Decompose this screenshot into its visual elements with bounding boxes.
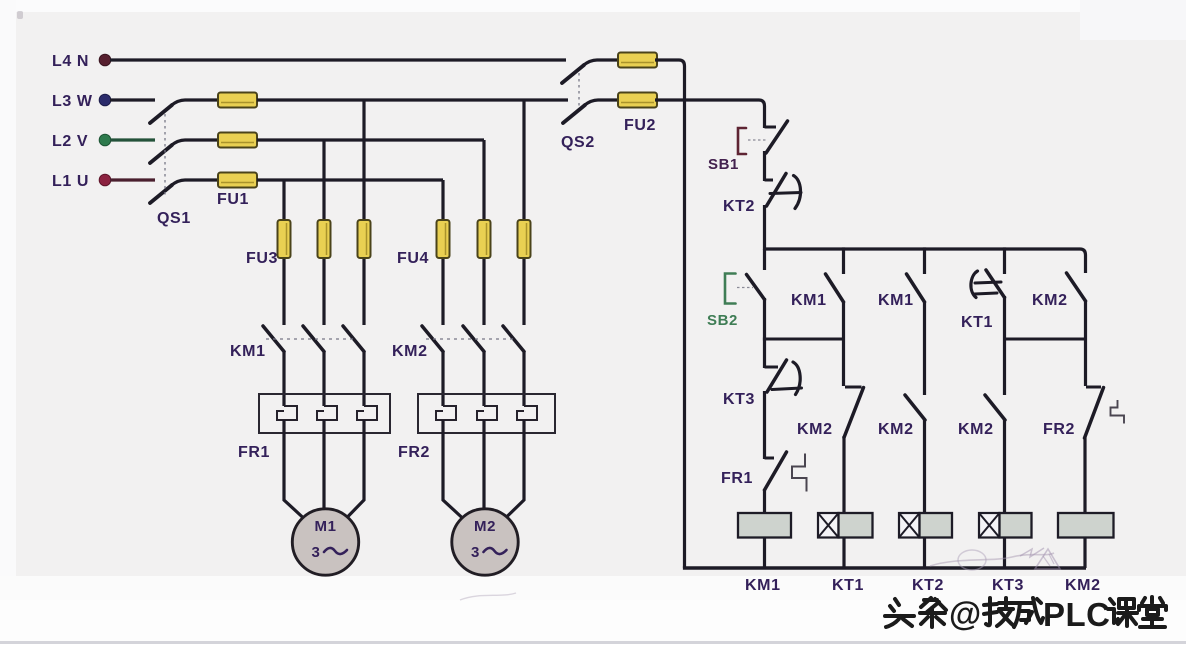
wire branch2 mid	[842, 301, 845, 386]
svg-text:KM2: KM2	[1032, 292, 1068, 309]
contact KM1 auxiliary branch3	[878, 274, 925, 309]
wire L1 U after FU1	[257, 178, 443, 181]
svg-text:KT1: KT1	[832, 577, 864, 594]
wire M1 lead 1	[284, 420, 304, 519]
wire branch3 mid	[923, 301, 926, 395]
wire L1 U	[110, 178, 155, 181]
wire branch4 to coil	[1003, 419, 1006, 514]
svg-text:SB1: SB1	[708, 156, 739, 173]
svg-text:L1 U: L1 U	[52, 173, 89, 190]
terminal dot L2 V	[99, 134, 111, 146]
svg-text:L4 N: L4 N	[52, 53, 89, 70]
wire branch1 FR1 to coil	[763, 489, 766, 514]
svg-text:KM1: KM1	[745, 577, 781, 594]
wire branch5 coil to bus	[1083, 537, 1086, 568]
wire M1 lead 2	[322, 420, 325, 512]
svg-text:FU1: FU1	[217, 191, 249, 208]
wire branch5 to coil	[1083, 437, 1086, 514]
wire branch1 SB2-KT3	[763, 298, 766, 368]
svg-text:SB2: SB2	[707, 312, 738, 329]
node L3 W label	[52, 93, 93, 110]
wire link SB2/KM1 holding	[763, 337, 844, 340]
coil KT3	[979, 513, 1032, 594]
thermal relay FR1	[238, 394, 390, 461]
svg-text:KM1: KM1	[791, 292, 827, 309]
wire branch4 coil to bus	[1003, 537, 1006, 568]
wire FU4 column 3	[522, 100, 525, 325]
fuse FU4	[397, 220, 531, 267]
switch QS1	[150, 100, 218, 227]
wire KM2 pole 1 to FR2	[441, 351, 444, 406]
wire branch3 to coil	[923, 419, 926, 514]
fuse FU1	[215, 93, 260, 209]
wire branch2 top	[842, 247, 845, 274]
wire M2 lead 1	[443, 420, 463, 519]
svg-text:KM2: KM2	[797, 421, 833, 438]
svg-text:KM2: KM2	[392, 343, 428, 360]
wire KM1 pole 1 to FR1	[282, 351, 285, 406]
svg-text:KT3: KT3	[723, 391, 755, 408]
time-delay contact KT2	[723, 174, 801, 216]
wire branch3 coil to bus	[923, 537, 926, 568]
wire L3 W after FU1	[257, 98, 568, 101]
wire branch5 mid	[1084, 300, 1087, 386]
svg-text:@: @	[949, 595, 981, 632]
svg-text:FR2: FR2	[1043, 421, 1075, 438]
wire branch4 mid	[1003, 296, 1006, 395]
wire KM1 pole 3 to FR1	[362, 351, 365, 406]
svg-text:KT1: KT1	[961, 314, 993, 331]
svg-text:FR2: FR2	[398, 444, 430, 461]
thermal relay FR2	[398, 394, 555, 461]
svg-text:L2 V: L2 V	[52, 133, 88, 150]
coil KM2	[1058, 513, 1114, 594]
watermark text 头条 @技成PLC课堂	[885, 595, 1166, 633]
switch QS2	[561, 60, 619, 151]
motor M2	[452, 509, 518, 575]
svg-text:QS1: QS1	[157, 210, 191, 227]
node L2 V label	[52, 133, 88, 150]
fuse FU2	[615, 53, 660, 135]
wire KM2 pole 3 to FR2	[522, 351, 525, 406]
wire branch2 coil to bus	[842, 537, 845, 568]
wire branch1 SB1-KT2	[763, 151, 766, 181]
terminal dot L3 W	[99, 94, 111, 106]
wire M2 lead 2	[482, 420, 485, 512]
wire L4 N	[110, 58, 566, 61]
svg-text:L3 W: L3 W	[52, 93, 93, 110]
svg-text:FR1: FR1	[238, 444, 270, 461]
terminal dot L1 U	[99, 174, 111, 186]
node L1 U label	[52, 173, 89, 190]
svg-text:3: 3	[471, 544, 480, 561]
contact KM2 auxiliary branch5	[1032, 273, 1086, 309]
coil KT1	[818, 513, 873, 594]
contact KM2 NC branch2	[797, 387, 864, 438]
wire branch1 KT3-FR1	[763, 391, 766, 459]
wire branch1 coil to bus	[763, 537, 766, 568]
terminal dot L4 N	[99, 54, 111, 66]
svg-text:KT2: KT2	[912, 577, 944, 594]
stop button SB1	[708, 121, 788, 173]
thermal contact FR1	[721, 452, 807, 492]
svg-text:FU3: FU3	[246, 250, 278, 267]
contactor KM2 main contacts	[392, 326, 524, 360]
wire control top bus	[765, 249, 1086, 273]
wire KM1 pole 2 to FR1	[322, 351, 325, 406]
svg-text:KM1: KM1	[230, 343, 266, 360]
wire L3 W	[110, 98, 155, 101]
wire FU4 column 1	[441, 180, 444, 325]
svg-text:M1: M1	[314, 518, 336, 535]
wire branch3 top	[923, 247, 926, 274]
contact KM1 auxiliary branch2	[791, 274, 844, 309]
wire control left rail	[655, 60, 685, 568]
wire KM2 pole 2 to FR2	[482, 351, 485, 406]
wire M2 lead 3	[505, 420, 524, 519]
svg-text:KM1: KM1	[878, 292, 914, 309]
fuse FU3	[246, 220, 371, 267]
svg-text:KM2: KM2	[878, 421, 914, 438]
svg-text:KT2: KT2	[723, 198, 755, 215]
contactor KM1 main contacts	[230, 326, 364, 360]
wire FU3 column 1	[282, 180, 285, 325]
svg-text:FU2: FU2	[624, 117, 656, 134]
svg-text:KT3: KT3	[992, 577, 1024, 594]
wire L2 V after FU1	[257, 138, 484, 141]
svg-text:KM2: KM2	[958, 421, 994, 438]
coil KM1	[738, 513, 791, 594]
svg-text:KM2: KM2	[1065, 577, 1101, 594]
wire branch2 to coil	[842, 436, 845, 514]
svg-text:FU4: FU4	[397, 250, 429, 267]
node L4 N label	[52, 53, 89, 70]
wire FU3 column 3	[362, 100, 365, 325]
thermal contact FR2	[1043, 387, 1124, 438]
contact KM2 auxiliary branch4	[958, 395, 1005, 438]
time-delay contact KT3	[723, 360, 802, 408]
wire FU3 column 2	[322, 140, 325, 325]
svg-text:PLC: PLC	[1043, 596, 1111, 633]
svg-text:3: 3	[312, 544, 321, 561]
wire link KT1/KM2	[1005, 337, 1087, 340]
wire control bottom bus	[683, 566, 1086, 569]
svg-text:QS2: QS2	[561, 134, 595, 151]
svg-text:M2: M2	[474, 518, 496, 535]
time-delay contact KT1	[961, 270, 1005, 331]
wire FU4 column 2	[482, 140, 485, 325]
coil KT2	[899, 513, 952, 594]
wire L3 W to branch 1	[655, 100, 765, 128]
svg-text:FR1: FR1	[721, 470, 753, 487]
watermark scribble	[460, 548, 1060, 600]
wire M1 lead 3	[346, 420, 364, 519]
wire branch1 KT2 to bus	[763, 205, 766, 250]
contact KM2 auxiliary branch3	[878, 395, 925, 438]
start button SB2	[707, 249, 765, 329]
wire branch4 top	[1003, 247, 1006, 274]
motor M1	[292, 509, 358, 575]
wire L2 V	[110, 138, 155, 141]
